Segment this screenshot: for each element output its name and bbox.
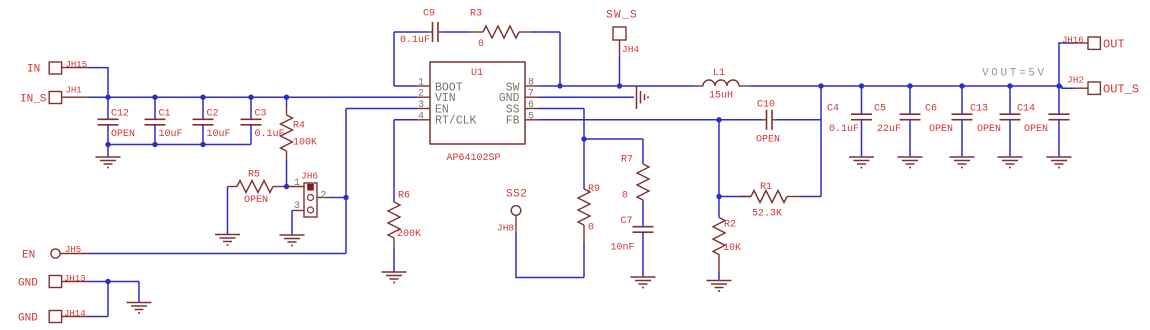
capacitor C6 (925, 86, 973, 157)
wire JH6 pin3 to ground (291, 211, 293, 236)
wire GND pin7 (538, 96, 634, 98)
capacitor C1 (145, 97, 183, 144)
wire EN net (88, 109, 346, 254)
svg-text:JH13: JH13 (64, 274, 86, 284)
svg-text:IN_S: IN_S (20, 94, 47, 106)
capacitor C4 (827, 86, 872, 157)
ground C6 (950, 157, 975, 169)
svg-text:U1: U1 (471, 68, 483, 79)
svg-text:SW_S: SW_S (606, 10, 638, 22)
svg-text:0: 0 (478, 39, 484, 50)
svg-text:JH5: JH5 (65, 245, 81, 255)
ground R7/C7 (631, 277, 656, 289)
port GND (JH14) (18, 309, 88, 325)
svg-text:JH15: JH15 (66, 60, 88, 70)
svg-text:JH1: JH1 (66, 86, 82, 96)
inductor L1 (694, 68, 750, 102)
svg-text:FB: FB (506, 115, 520, 128)
port OUT (JH16) (1062, 36, 1125, 52)
svg-text:R7: R7 (621, 155, 633, 166)
ground R2 (707, 281, 732, 293)
U1 pin 7 (525, 89, 538, 100)
wire VOUT rail (750, 83, 1062, 88)
wire JH4 to SW (619, 56, 621, 86)
svg-text:10K: 10K (723, 243, 741, 254)
wire SS branch to R7 (584, 139, 643, 164)
capacitor C2 (193, 97, 231, 144)
wire FB down to R1/R2 (716, 120, 721, 199)
resistor R6 (388, 191, 421, 273)
svg-text:10uF: 10uF (159, 129, 183, 140)
svg-text:6: 6 (528, 100, 534, 111)
svg-text:C14: C14 (1017, 104, 1035, 115)
svg-text:15uH: 15uH (709, 91, 733, 102)
ground GND ports (127, 303, 152, 315)
port SW_S (JH4) (606, 10, 639, 57)
resistor R3 (470, 9, 532, 51)
svg-text:OUT: OUT (1103, 38, 1125, 52)
wire SS pin6 (538, 109, 587, 142)
ground JH6 pin3 (280, 235, 305, 247)
wire input cap bottom rail (105, 142, 251, 147)
svg-text:R4: R4 (293, 121, 305, 132)
svg-text:EN: EN (22, 250, 35, 262)
node rail junctions (105, 95, 289, 100)
svg-text:0.1uF: 0.1uF (829, 124, 859, 135)
svg-text:200K: 200K (397, 229, 421, 240)
svg-text:4: 4 (418, 111, 424, 122)
U1 pin 8 (525, 78, 538, 89)
svg-text:C3: C3 (255, 109, 267, 120)
svg-text:22uF: 22uF (877, 124, 901, 135)
node R4/R5/JH6 junction (284, 184, 289, 189)
svg-text:2: 2 (418, 89, 424, 100)
svg-text:JH4: JH4 (622, 44, 639, 55)
svg-text:5: 5 (528, 111, 534, 122)
U1 pin 2 (417, 89, 430, 100)
svg-text:0: 0 (622, 191, 628, 202)
ground C5 (898, 157, 923, 169)
wire EN pin3 (346, 108, 417, 110)
capacitor C7 (611, 216, 654, 277)
svg-text:OPEN: OPEN (977, 124, 1001, 135)
wire JH8 to R9 bottom (516, 232, 584, 278)
svg-text:7: 7 (528, 89, 534, 100)
capacitor C12 (98, 97, 136, 144)
ground input caps (96, 145, 121, 169)
svg-text:1: 1 (418, 78, 424, 89)
resistor R9 (578, 139, 600, 278)
capacitor C3 (241, 97, 285, 144)
wire C10 right to output branch (776, 86, 821, 197)
svg-text:C7: C7 (621, 216, 633, 227)
capacitor C10 (756, 100, 780, 146)
svg-text:JH14: JH14 (64, 309, 86, 319)
ground R6 (382, 272, 407, 284)
svg-text:C4: C4 (827, 104, 839, 115)
svg-text:0.1uF: 0.1uF (255, 129, 285, 140)
svg-text:C10: C10 (757, 100, 775, 111)
svg-text:C9: C9 (423, 9, 435, 20)
svg-text:3: 3 (294, 201, 300, 212)
port IN (JH15) (27, 60, 88, 76)
svg-text:L1: L1 (713, 68, 725, 79)
svg-text:AP64102SP: AP64102SP (447, 153, 501, 164)
wire R3 to SW node (532, 32, 560, 86)
port OUT_S (JH2) (1067, 75, 1139, 97)
capacitor C5 (874, 86, 921, 157)
port EN (JH5) (22, 245, 88, 262)
svg-text:3: 3 (418, 100, 424, 111)
svg-text:OPEN: OPEN (244, 195, 268, 206)
svg-text:OPEN: OPEN (756, 135, 780, 146)
capacitor C14 (1017, 86, 1070, 157)
resistor R7 (621, 155, 649, 227)
svg-text:JH16: JH16 (1062, 36, 1084, 46)
wire IN to rail (88, 68, 108, 97)
U1 pin names (435, 82, 520, 128)
wire GND net (88, 279, 139, 317)
wire to OUT_S port (1062, 86, 1074, 88)
svg-text:GND: GND (18, 313, 38, 325)
svg-text:C1: C1 (159, 109, 171, 120)
resistor R5 (228, 170, 287, 207)
svg-text:10uF: 10uF (207, 129, 231, 140)
wire FB pin5 row (538, 117, 762, 122)
svg-text:C13: C13 (970, 104, 988, 115)
ground R5 (215, 235, 240, 247)
ground sideways at pin7 (637, 86, 650, 110)
node VOUT=5V label (982, 68, 1047, 80)
svg-text:GND: GND (18, 278, 38, 290)
svg-text:OUT_S: OUT_S (1103, 83, 1139, 97)
svg-text:100K: 100K (293, 138, 317, 149)
svg-text:OPEN: OPEN (111, 129, 135, 140)
svg-text:R5: R5 (248, 170, 260, 181)
U1 pin 3 (417, 100, 430, 111)
svg-text:R2: R2 (724, 220, 736, 231)
svg-text:8: 8 (528, 78, 534, 89)
svg-text:R9: R9 (588, 184, 600, 195)
port IN_S (JH1) (20, 86, 88, 106)
connector JH6 (287, 171, 331, 218)
svg-text:52.3K: 52.3K (752, 209, 782, 220)
svg-text:C6: C6 (925, 104, 937, 115)
svg-text:OPEN: OPEN (929, 124, 953, 135)
svg-text:C12: C12 (111, 109, 129, 120)
wire RT/CLK pin4 to R6 (394, 120, 417, 202)
port GND (JH13) (18, 274, 88, 290)
wire JH6 pin2 to EN net (330, 195, 349, 200)
svg-text:R3: R3 (470, 9, 482, 20)
svg-text:1: 1 (294, 178, 300, 189)
op-amp U1 body (430, 62, 525, 164)
wire R5 left to ground (227, 187, 229, 235)
svg-text:C5: C5 (874, 104, 886, 115)
resistor R2 (713, 197, 741, 281)
U1 pin 4 (417, 111, 430, 122)
svg-text:C2: C2 (207, 109, 219, 120)
svg-text:0: 0 (588, 223, 594, 234)
svg-text:R1: R1 (760, 182, 772, 193)
capacitor C13 (970, 86, 1021, 157)
wire BOOT loop left (394, 32, 428, 86)
svg-text:OPEN: OPEN (1024, 124, 1048, 135)
ground C14 (1047, 157, 1072, 169)
svg-text:VOUT=5V: VOUT=5V (982, 68, 1047, 80)
ground C13 (998, 157, 1023, 169)
U1 pin 5 (525, 111, 538, 122)
wire to OUT port (1059, 43, 1074, 86)
svg-text:IN: IN (27, 64, 40, 76)
wire SW row (538, 83, 694, 88)
svg-text:R6: R6 (398, 191, 410, 202)
resistor R4 (281, 97, 318, 186)
wire VIN rail (88, 96, 417, 98)
wire C9 to R3 (442, 31, 470, 33)
U1 pin 1 (417, 78, 430, 89)
port SS2 (JH8) (497, 189, 527, 234)
resistor R1 (719, 182, 821, 220)
svg-text:10nF: 10nF (611, 243, 635, 254)
capacitor C9 (400, 9, 442, 47)
ground C4 (849, 157, 874, 169)
svg-text:2: 2 (321, 191, 327, 202)
svg-text:JH6: JH6 (301, 171, 318, 182)
svg-text:0.1uF: 0.1uF (400, 35, 430, 46)
svg-text:SS2: SS2 (506, 189, 527, 201)
svg-text:JH8: JH8 (497, 223, 514, 234)
svg-text:JH2: JH2 (1067, 75, 1084, 86)
svg-text:RT/CLK: RT/CLK (435, 115, 477, 128)
U1 pin 6 (525, 100, 538, 111)
